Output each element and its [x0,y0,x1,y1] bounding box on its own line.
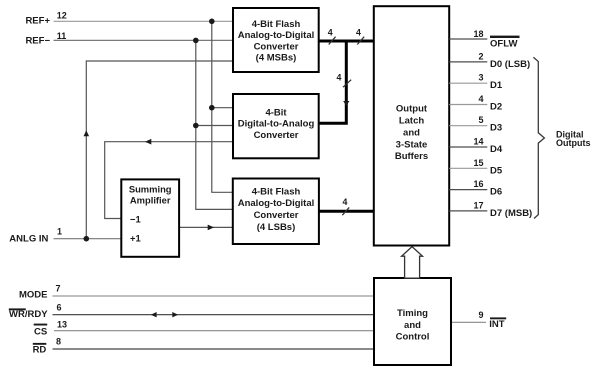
svg-text:OFLW: OFLW [490,39,517,50]
svg-text:11: 11 [57,31,67,41]
svg-text:9: 9 [478,310,483,320]
svg-text:1: 1 [57,227,62,237]
box output latch and 3-state buffers [374,6,449,245]
svg-text:18: 18 [473,29,483,39]
output pin D7 [449,210,487,212]
svg-text:INT: INT [489,319,505,330]
bus MSB branch down to DAC (4) [319,41,347,123]
svg-text:4: 4 [337,72,342,82]
wire MODE [53,295,375,297]
output pin D3 [449,125,487,127]
box 4-bit flash ADC (4 MSBs) [233,8,319,72]
svg-text:REF−: REF− [25,36,50,47]
svg-text:(4 MSBs): (4 MSBs) [256,53,297,64]
output pin D4 [449,146,487,148]
svg-text:and: and [404,320,421,331]
wire DAC output feedback to summing amp [105,142,233,219]
svg-text:D0 (LSB): D0 (LSB) [490,59,530,70]
svg-text:Analog-to-Digital: Analog-to-Digital [238,30,315,41]
svg-text:Latch: Latch [399,116,425,127]
svg-text:Converter: Converter [254,130,299,141]
svg-text:4: 4 [356,27,361,37]
svg-text:4: 4 [328,27,333,37]
svg-text:Outputs: Outputs [556,138,591,148]
svg-text:D4: D4 [490,144,503,155]
svg-text:2: 2 [478,51,483,61]
svg-text:Digital-to-Analog: Digital-to-Analog [238,119,315,130]
svg-text:D3: D3 [490,123,502,134]
output pin D6 [449,189,487,191]
output pin D5 [449,167,487,169]
svg-text:4-Bit Flash: 4-Bit Flash [252,19,301,30]
svg-text:16: 16 [473,179,483,189]
svg-text:REF+: REF+ [25,15,50,26]
svg-text:7: 7 [56,284,61,294]
box 4-bit DAC [233,94,319,158]
wire DAC input 2 [196,125,233,127]
svg-text:14: 14 [473,137,483,147]
output pin D1 [449,82,487,84]
svg-text:12: 12 [57,10,67,20]
wire summing amp output [179,226,233,228]
arrowhead right on summing output [208,225,214,231]
wire REF+ [54,20,234,22]
svg-text:WR/RDY: WR/RDY [9,309,48,320]
arrowhead up on ANLG riser [84,130,90,136]
svg-text:5: 5 [478,115,483,125]
svg-text:ANLG IN: ANLG IN [9,234,48,245]
wire ANLG IN [54,238,122,240]
brace digital outputs [533,57,544,218]
output pin D2 [449,104,487,106]
hollow arrow timing to latch [402,247,423,279]
svg-text:+1: +1 [130,233,141,244]
svg-text:D5: D5 [490,165,503,176]
svg-text:4-Bit: 4-Bit [265,108,287,119]
bus LSB ADC to output latch (4) [319,210,374,213]
wire ANLG IN riser to MSB ADC [86,61,233,239]
svg-text:8: 8 [56,336,61,346]
svg-text:and: and [403,127,420,138]
arrowhead left on DAC feedback [145,139,151,145]
wire WR/RDY [53,314,375,316]
box summing amplifier [121,179,179,256]
svg-text:Analog-to-Digital: Analog-to-Digital [238,198,315,209]
svg-text:13: 13 [57,319,67,329]
svg-text:D2: D2 [490,102,502,113]
svg-text:Control: Control [396,332,430,343]
label WR/RDY with overline on WR [9,308,26,310]
junction dots [209,19,215,25]
wire REF- [54,39,234,41]
svg-text:15: 15 [473,158,483,168]
svg-text:D1: D1 [490,80,503,91]
svg-text:Converter: Converter [254,41,299,52]
svg-text:6: 6 [57,303,62,313]
svg-text:Summing: Summing [129,184,172,195]
wire REF+ vertical drop to DAC and LSB ADC [212,21,233,192]
svg-text:D7 (MSB): D7 (MSB) [490,208,532,219]
wire CS [54,330,374,332]
svg-text:(4 LSBs): (4 LSBs) [257,222,296,233]
svg-text:Timing: Timing [397,308,428,319]
arrowhead right on WR/RDY [172,312,178,317]
box 4-bit flash ADC (4 LSBs) [233,179,319,245]
svg-text:RD: RD [33,345,47,356]
box timing and control [374,278,451,365]
bus MSB ADC to output latch (4) [319,40,374,43]
svg-text:D6: D6 [490,187,502,198]
svg-text:Converter: Converter [254,210,299,221]
label RD with overline [33,343,47,345]
svg-text:3: 3 [478,73,483,83]
output pin OFLW [449,38,487,40]
svg-text:4: 4 [478,94,483,104]
svg-text:Output: Output [396,104,428,115]
wire RD [53,348,375,350]
svg-text:MODE: MODE [19,290,48,301]
wire INT output [451,321,486,323]
label CS with overline [34,324,48,326]
bus slash marks [329,37,336,45]
arrowhead down on MSB-DAC bus [343,101,349,106]
wire DAC input 1 [212,107,233,109]
svg-text:Buffers: Buffers [395,151,428,162]
svg-text:−1: −1 [130,213,141,224]
svg-text:17: 17 [473,200,483,210]
svg-text:CS: CS [34,326,47,337]
svg-text:4-Bit Flash: 4-Bit Flash [252,186,301,197]
wire REF- vertical drop to DAC and LSB ADC [196,40,233,209]
svg-text:Amplifier: Amplifier [130,195,171,206]
arrowhead left on WR/RDY [151,312,157,317]
output pin D0 [449,61,487,63]
svg-text:4: 4 [343,197,348,207]
svg-text:3-State: 3-State [396,139,428,150]
